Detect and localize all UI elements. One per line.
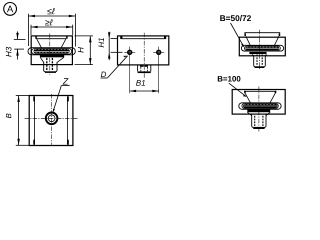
- variant2 stem left edge: [251, 115, 253, 127]
- top strip line: [121, 38, 166, 40]
- dimension greater-equal L right arrow: [66, 26, 73, 29]
- B1 right arrow: [152, 90, 158, 93]
- variant1 stem left chamfer: [254, 66, 255, 67]
- variant1 funnel top edge: [244, 32, 280, 34]
- stem right edge: [56, 62, 58, 71]
- right groove top bar: [67, 96, 69, 101]
- funnel left lip: [35, 36, 37, 39]
- serrated washer stadium outline: [28, 48, 75, 55]
- funnel right lip: [66, 36, 68, 39]
- strip left tick: [120, 36, 122, 39]
- H1 down arrow: [108, 32, 111, 38]
- centerline view1: [49, 34, 51, 75]
- variant2 neck left slant: [247, 112, 251, 115]
- stem view2 thread hidden right: [147, 67, 149, 71]
- left groove bottom bar: [33, 140, 35, 145]
- label D text: [101, 72, 106, 77]
- left groove top bar: [33, 96, 35, 101]
- dimension H3 line: [17, 31, 19, 39]
- variant1 funnel right slant: [274, 36, 279, 46]
- hole left horizontal centerline: [124, 51, 135, 53]
- variant1 neck left vertical: [251, 54, 253, 56]
- variant1 stem right edge: [264, 55, 266, 66]
- variant2 serration white notches: [244, 104, 274, 106]
- H extension line upper: [75, 35, 94, 37]
- hole left vertical centerline and B1 extension: [129, 47, 131, 94]
- stem bottom edge: [45, 71, 56, 73]
- variant1 stem right chamfer: [264, 66, 265, 67]
- variant2 thread hidden left: [254, 116, 256, 126]
- stem view2 thread hidden left: [140, 67, 142, 71]
- H top arrow: [89, 36, 92, 43]
- variant2 funnel left slant: [245, 93, 250, 103]
- H text: [78, 47, 84, 53]
- label D underline: [101, 77, 108, 79]
- variant1 washer dark fill: [245, 46, 279, 50]
- H1 extension upper: [111, 38, 118, 40]
- H1 up arrow: [108, 52, 111, 58]
- strip right tick: [164, 36, 166, 39]
- dimension lesser-equal L left arrow: [28, 15, 35, 18]
- stem view2 dark bar left: [140, 65, 144, 67]
- stem view2 right edge: [150, 65, 152, 72]
- dimension B1 line: [130, 90, 159, 92]
- hole right horizontal centerline: [153, 51, 164, 53]
- B extension lower: [16, 144, 29, 146]
- label Z leader arrow: [53, 109, 55, 112]
- variant1 washer inner outline: [245, 46, 281, 51]
- variant1 serration white notches: [247, 46, 277, 48]
- top view outer rectangle: [29, 96, 73, 146]
- funnel left slant: [37, 39, 42, 48]
- view label A letter: [7, 6, 13, 13]
- B top arrow: [17, 96, 20, 103]
- stem view2 dark bar right: [145, 65, 148, 67]
- H3 up arrow: [16, 49, 19, 56]
- variant1 lower clamp bar dark: [249, 52, 266, 54]
- variant1 washer stadium: [241, 45, 283, 51]
- extension line left of lesser-equal L: [27, 14, 29, 46]
- dimension greater-equal L left arrow: [31, 26, 38, 29]
- variant2 funnel right lip: [275, 91, 277, 94]
- variant2 thread hidden right: [262, 116, 264, 126]
- variant2 stem right edge: [265, 115, 267, 127]
- serrated washer dark fill: [34, 49, 70, 54]
- serration white notches: [35, 49, 69, 51]
- variant1 funnel left slant: [246, 36, 251, 46]
- B bottom arrow: [17, 139, 20, 146]
- label B=100 leader arrow: [243, 94, 246, 96]
- H3 extension line lower: [14, 48, 24, 50]
- view label A circle: [4, 2, 17, 15]
- label B=100 leader: [229, 83, 246, 96]
- label B=50/72 leader: [231, 23, 244, 47]
- funnel right slant: [61, 39, 66, 48]
- neck right slant: [57, 57, 64, 62]
- stem view2 bottom edge: [138, 71, 151, 73]
- label B=50/72 leader arrow: [241, 44, 244, 47]
- B1 left arrow: [130, 90, 136, 93]
- left groove line: [34, 96, 36, 144]
- variant2 stem left chamfer: [252, 127, 254, 128]
- label Z underline: [61, 85, 69, 87]
- right groove bottom bar: [67, 140, 69, 145]
- label Z leader: [53, 86, 61, 113]
- variant2 funnel top edge: [244, 90, 276, 92]
- extension line left of greater-equal L: [30, 25, 32, 35]
- variant2 neck right slant: [266, 112, 270, 115]
- variant2 stem bottom edge: [253, 127, 264, 129]
- variant1 centerline: [259, 30, 261, 70]
- variant2 washer dark fill: [243, 104, 278, 108]
- stem thread hidden line left: [46, 58, 48, 71]
- variant1 neck right vertical: [265, 54, 267, 56]
- stem view2 left edge: [137, 65, 139, 72]
- variant1 stem left edge: [253, 55, 255, 66]
- body rectangle view1: [31, 36, 72, 65]
- B text: [6, 114, 11, 119]
- H3 text: [6, 47, 12, 57]
- variant2 lower clamp bar dark: [247, 109, 270, 112]
- variant2 washer stadium: [239, 103, 281, 110]
- top view horizontal centerline: [25, 117, 78, 119]
- variant2 body rectangle: [232, 90, 285, 115]
- H extension line lower: [75, 64, 94, 66]
- dimension lesser-equal L right arrow: [69, 15, 76, 18]
- dimension lesser-equal L text: [47, 8, 55, 14]
- stem thread hidden line right: [51, 58, 53, 71]
- funnel top edge: [37, 38, 66, 40]
- washer mid white line: [34, 50, 69, 52]
- H3 down arrow: [16, 33, 19, 40]
- dimension B line: [18, 96, 20, 146]
- H1 extension lower: [111, 51, 123, 53]
- hole left ring: [128, 50, 132, 54]
- label B=100 text: [218, 76, 241, 82]
- variant2 funnel left lip: [244, 91, 246, 94]
- cone outer circle: [46, 113, 58, 125]
- label Z text: [63, 78, 69, 84]
- variant1 funnel left lip: [244, 33, 246, 36]
- variant2 stem right chamfer: [264, 127, 266, 128]
- stem left chamfer: [44, 71, 46, 72]
- centerline view2: [143, 33, 145, 78]
- variant2 washer white mid line: [243, 105, 277, 107]
- variant1 thread hidden left: [256, 55, 258, 66]
- variant1 body rectangle: [239, 37, 285, 56]
- label D leader: [107, 56, 127, 78]
- H3 extension line upper: [14, 38, 26, 40]
- variant2 washer inner outline: [242, 103, 278, 108]
- H1 text: [98, 38, 104, 47]
- variant1 stem bottom edge: [255, 66, 265, 68]
- dimension H line: [89, 36, 91, 65]
- variant2 centerline: [258, 87, 260, 132]
- label B=50/72 text: [220, 15, 251, 21]
- right groove line: [66, 96, 68, 144]
- neck left slant: [40, 57, 44, 62]
- stem right chamfer: [56, 71, 58, 72]
- dimension lesser-equal L line: [28, 15, 75, 17]
- dimension greater-equal L line: [31, 26, 73, 28]
- extension line right of lesser-equal L: [74, 14, 76, 47]
- body rectangle view2: [118, 36, 169, 65]
- B1 text: [136, 80, 145, 86]
- variant1 funnel right lip: [279, 33, 281, 36]
- hole right ring: [157, 50, 161, 54]
- extension line right of greater-equal L: [72, 25, 74, 35]
- dimension greater-equal L text: [45, 19, 53, 25]
- variant2 funnel right slant: [270, 93, 275, 103]
- top view vertical centerline: [51, 94, 53, 145]
- dimension H1 line: [108, 32, 110, 61]
- stem left edge: [43, 62, 45, 71]
- serrated washer inner outline: [32, 49, 72, 55]
- variant1 washer white mid line: [246, 47, 279, 49]
- H bottom arrow: [89, 58, 92, 65]
- cone inner circle: [48, 115, 55, 122]
- lower clamp bar dark: [40, 55, 64, 57]
- label D leader arrow: [123, 56, 127, 57]
- hole right vertical centerline and B1 extension: [158, 47, 160, 94]
- B extension upper: [16, 95, 29, 97]
- variant1 thread hidden right: [261, 55, 263, 66]
